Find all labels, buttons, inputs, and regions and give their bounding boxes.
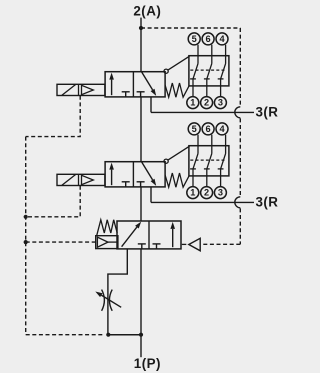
svg-text:5: 5 [192, 34, 197, 44]
blocked port V2b [137, 182, 145, 187]
switch contact 2-3 [218, 135, 226, 187]
pilot line from SOL2 (dashed) [26, 186, 80, 217]
svg-text:4: 4 [219, 124, 225, 134]
pilot line from SOL1 (dashed) [26, 96, 80, 137]
throttle adjust arrow [95, 292, 121, 308]
switch contact 1-3 [218, 45, 226, 97]
dashed line right side (middle) [239, 118, 241, 196]
roller1 [164, 69, 168, 73]
terminal circle 6 (row1) [202, 33, 214, 45]
switch contact 2-2 [204, 135, 212, 187]
terminal circle 3 (row2) [214, 187, 226, 199]
branch line from V3 to throttle [108, 249, 127, 335]
dashed pilot line to valve V3 (right) [201, 243, 240, 245]
flow arrow up V2 [109, 163, 114, 186]
port label 3(R row1 [256, 105, 279, 120]
port label 1(P) [134, 356, 161, 371]
flow arrow diagonal V2 [142, 162, 157, 186]
return spring V1 [165, 83, 189, 97]
svg-text:3(R: 3(R [256, 105, 279, 120]
line hop over 3(R row2) [235, 197, 241, 208]
main line 2(A) to valve V1 [140, 18, 142, 72]
exhaust line V2 [151, 187, 254, 203]
blocked port V3a [138, 244, 146, 249]
terminal circle 4 (row1) [216, 33, 228, 45]
return spring V3 [97, 220, 117, 235]
valve body V1 (3-port 2-position) [105, 72, 165, 97]
micro-switch box SW1 [189, 56, 229, 86]
pilot line to V3 pilot (dashed) [26, 241, 96, 243]
port label 3(R row2 [256, 195, 279, 210]
svg-text:2: 2 [204, 98, 209, 108]
svg-text:3(R: 3(R [256, 195, 279, 210]
pilot bus junction upper [24, 215, 28, 219]
roller2 [164, 159, 168, 163]
solenoid pilot triangle1 [82, 85, 94, 94]
return spring V2 [165, 173, 189, 187]
switch contact 1-2 [204, 45, 212, 97]
pilot bus vertical (dashed) [25, 137, 27, 335]
exhaust line V1 [151, 97, 254, 113]
flow arrow diagonal V3 [122, 222, 142, 247]
main line V2 to V3 [140, 187, 142, 221]
main line V1 to V2 [140, 97, 142, 162]
flow arrow diagonal V1 [142, 72, 157, 96]
micro-switch box SW2 [189, 146, 229, 176]
svg-text:6: 6 [206, 124, 211, 134]
pilot operator box V3 [96, 236, 118, 249]
valve body V3 (3-port 2-position) [117, 221, 181, 249]
svg-text:3: 3 [218, 98, 223, 108]
pilot check triangle (right of V3) [182, 238, 200, 251]
pilot bus junction lower [24, 240, 28, 244]
switch coupling dashed2 [190, 159, 225, 161]
lever2 [168, 146, 190, 160]
flow arrow up V1 [109, 73, 114, 96]
svg-text:1: 1 [190, 188, 195, 198]
terminal circle 1 (row1) [187, 97, 199, 109]
terminal circle 3 (row1) [214, 97, 226, 109]
dashed branch to switch boxes (top) [141, 27, 240, 29]
valve body V2 (3-port 2-position) [105, 162, 165, 187]
switch coupling dashed1 [190, 69, 225, 71]
terminal circle 6 (row2) [202, 123, 214, 135]
svg-text:5: 5 [192, 124, 197, 134]
port label 2(A) [133, 4, 161, 19]
blocked port V1b [137, 92, 145, 97]
line hop over 3(R row1) [235, 107, 241, 118]
terminal circle 5 (row1) [188, 33, 200, 45]
svg-text:6: 6 [206, 34, 211, 44]
svg-text:1(P): 1(P) [134, 356, 161, 371]
flow arrow up V3 [170, 222, 175, 247]
junction node at 2(A) [139, 26, 143, 30]
terminal circle 2 (row2) [201, 187, 213, 199]
switch contact 2-1 [190, 135, 198, 187]
svg-text:2(A): 2(A) [133, 4, 161, 19]
svg-text:1: 1 [190, 98, 195, 108]
solenoid pilot triangle2 [82, 175, 94, 184]
junction node bottom-left [106, 333, 110, 337]
terminal circle 2 (row1) [201, 97, 213, 109]
lever1 [168, 56, 190, 70]
bottom connector line [108, 334, 141, 336]
blocked port V1a [122, 92, 130, 97]
blocked port V3b [153, 244, 161, 249]
dashed line right side (upper) [239, 28, 241, 107]
solenoid actuator box SOL1 [57, 84, 105, 95]
main line V3 to 1(P) [140, 249, 142, 357]
junction node bottom-right [139, 333, 143, 337]
solenoid actuator box SOL2 [57, 174, 105, 185]
throttle valve (variable restrictor) [102, 290, 113, 311]
svg-text:2: 2 [204, 188, 209, 198]
dashed line right side (lower) [239, 208, 241, 244]
terminal circle 1 (row2) [187, 187, 199, 199]
blocked port V2a [122, 182, 130, 187]
terminal circle 4 (row2) [216, 123, 228, 135]
terminal circle 5 (row2) [188, 123, 200, 135]
pilot bus bottom (dashed) [26, 334, 105, 336]
switch contact 1-1 [190, 45, 198, 97]
svg-text:4: 4 [219, 34, 225, 44]
svg-text:3: 3 [218, 188, 223, 198]
